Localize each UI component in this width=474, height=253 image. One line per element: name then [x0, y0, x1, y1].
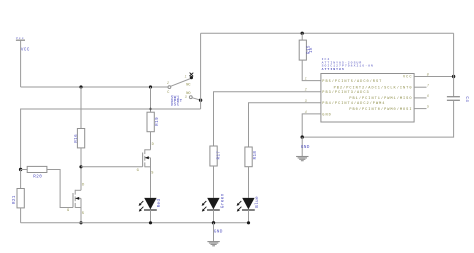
- wire IC pin 8 VCC to right rail: [414, 76, 454, 78]
- wire R15 to IC pin 1: [302, 60, 321, 81]
- svg-text:5: 5: [427, 105, 429, 109]
- svg-text:PB1/PCINT1/PWM1/MISO: PB1/PCINT1/PWM1/MISO: [349, 96, 412, 101]
- wire bottom bus: [21, 222, 249, 224]
- wire right rail lower: [302, 100, 453, 137]
- svg-text:ATTINY85: ATTINY85: [322, 67, 345, 71]
- IC4 pin names: [322, 76, 412, 118]
- wire LED Red cathode: [150, 210, 152, 223]
- svg-text:NC: NC: [186, 84, 190, 88]
- IC4 right pin numbers: [427, 73, 429, 109]
- wire IC pin 2 to R17 column: [214, 92, 321, 146]
- wire rail from top to bus: [200, 33, 202, 109]
- svg-text:1: 1: [305, 77, 307, 81]
- svg-text:G: G: [137, 169, 139, 173]
- node junction R20 branch: [19, 168, 22, 171]
- resistor R16: [75, 129, 85, 148]
- resistor R18: [245, 147, 258, 167]
- wire Q1 source to LED: [150, 158, 152, 198]
- svg-text:S: S: [151, 172, 153, 176]
- node junction gate wire of Q1: [79, 165, 82, 168]
- svg-text:DSC: DSC: [171, 104, 180, 108]
- svg-text:2: 2: [167, 81, 169, 85]
- svg-text:D: D: [152, 143, 154, 147]
- node junction Q2 source on bus: [79, 221, 82, 224]
- svg-text:R18: R18: [254, 151, 258, 160]
- svg-text:NO: NO: [186, 92, 190, 96]
- wire R16 bottom lead to Q2 drain: [80, 148, 82, 190]
- node junction R16 top on VCC wire: [79, 85, 82, 88]
- svg-text:3: 3: [305, 99, 307, 103]
- wire R19 top lead: [150, 87, 152, 112]
- node small junction R19 column on bus: [149, 108, 151, 110]
- svg-text:Vcc: Vcc: [16, 36, 25, 40]
- wire VCC horizontal to switch: [21, 86, 169, 88]
- resistor R20: [27, 166, 47, 179]
- wire top rail: [201, 32, 454, 34]
- svg-text:VCC: VCC: [21, 48, 30, 52]
- supply VCC symbol: [16, 36, 30, 52]
- svg-text:R17: R17: [218, 151, 222, 160]
- svg-text:1k: 1k: [309, 47, 314, 53]
- wire switched bus: [21, 109, 201, 170]
- wire to GND symbol: [213, 223, 215, 242]
- svg-text:PB5/PCINT5/ADC0/RST: PB5/PCINT5/ADC0/RST: [322, 79, 382, 84]
- wire R21 bottom to bottom bus: [20, 208, 22, 223]
- svg-text:R16: R16: [75, 134, 79, 143]
- wire Q2 source to bottom bus: [80, 198, 82, 222]
- wire VCC rail vertical: [20, 40, 22, 87]
- svg-text:Green: Green: [221, 193, 225, 208]
- svg-text:GND: GND: [301, 146, 310, 150]
- wire switch NO to rail: [192, 98, 201, 101]
- svg-text:7: 7: [427, 83, 429, 87]
- node junction R19 top on VCC wire: [149, 85, 152, 88]
- wire IC pin 5 stub: [414, 108, 426, 110]
- wire R16 top lead: [80, 87, 82, 129]
- LED Red: [139, 198, 162, 212]
- svg-text:PB2/PCINT2/ADC1/SCLK/INT0: PB2/PCINT2/ADC1/SCLK/INT0: [334, 85, 413, 90]
- node junction R15 on top rail: [301, 32, 304, 35]
- wire IC pin 7 stub: [414, 86, 426, 88]
- wire IC pin 3 to R18 column: [249, 103, 321, 147]
- wire R20 right lead to Q2 gate: [47, 170, 73, 208]
- svg-text:D: D: [82, 183, 84, 187]
- resistor R21: [13, 189, 24, 208]
- svg-text:PB0/PCINT0/PWM0/MOSI: PB0/PCINT0/PWM0/MOSI: [349, 107, 412, 112]
- svg-text:S: S: [82, 212, 84, 216]
- wire GND stub: [301, 137, 303, 156]
- transistor Q1 n-mosfet: [137, 143, 154, 176]
- svg-text:4: 4: [305, 110, 307, 114]
- node junction NO on rail: [199, 99, 202, 102]
- wire left rail to R21: [20, 170, 22, 189]
- svg-text:C: C: [167, 91, 169, 95]
- ground GND near IC: [296, 146, 310, 161]
- capacitor C4: [447, 96, 468, 102]
- node junction LED Red cathode: [149, 221, 152, 224]
- svg-text:1: 1: [185, 74, 187, 78]
- svg-text:VCC: VCC: [403, 76, 412, 80]
- wire R20 left lead: [21, 169, 28, 171]
- wire right rail upper: [453, 33, 455, 96]
- node junction GND branch: [212, 221, 215, 224]
- resistor R19: [147, 112, 160, 132]
- node junction LED Blue on bus: [247, 221, 250, 224]
- svg-text:Blue: Blue: [255, 196, 260, 208]
- wire gate of Q1: [81, 166, 143, 168]
- svg-text:PB4/PCINT4/ADC2/PWM4: PB4/PCINT4/ADC2/PWM4: [322, 101, 385, 106]
- svg-text:R20: R20: [33, 175, 42, 179]
- wire R17 bottom to LED Green: [213, 166, 215, 198]
- op IC4 ATTINY85 box: [321, 57, 414, 122]
- resistor R15: [299, 33, 314, 60]
- wire LED Blue cathode: [248, 210, 250, 223]
- svg-text:6: 6: [427, 94, 429, 98]
- svg-text:G: G: [67, 209, 69, 213]
- svg-text:C4: C4: [464, 96, 468, 102]
- node junction GND net: [301, 135, 304, 138]
- wire LED Green cathode: [213, 210, 215, 223]
- svg-text:GND: GND: [214, 230, 223, 234]
- svg-text:R19: R19: [156, 117, 160, 126]
- svg-text:GND: GND: [322, 113, 331, 117]
- IC4 left pin numbers: [305, 77, 307, 114]
- svg-text:2: 2: [305, 88, 307, 92]
- resistor R17: [210, 146, 222, 166]
- svg-text:PB3/PCINT3/ADC3: PB3/PCINT3/ADC3: [322, 90, 369, 95]
- LED Green: [202, 193, 226, 211]
- transistor Q2 n-mosfet: [67, 183, 84, 216]
- LED Blue: [237, 196, 260, 212]
- svg-text:R21: R21: [13, 195, 17, 204]
- ground GND bottom: [207, 230, 222, 246]
- wire R19 bottom lead to Q1 drain: [150, 132, 152, 150]
- wire IC pin 4 to GND: [302, 114, 321, 137]
- wire R18 bottom to LED Blue: [248, 167, 250, 198]
- svg-text:Red: Red: [157, 198, 162, 207]
- node junction pin8 on right rail: [452, 75, 455, 78]
- wire IC pin 6 stub: [414, 97, 426, 99]
- switch SW1 SPDT: [167, 73, 193, 108]
